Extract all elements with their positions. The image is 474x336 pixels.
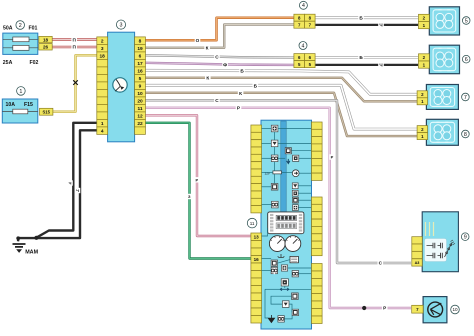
svg-text:16: 16 [137, 68, 143, 74]
svg-text:F01: F01 [29, 26, 38, 32]
svg-text:12: 12 [137, 113, 143, 119]
svg-text:18: 18 [100, 53, 106, 59]
svg-text:Ч: Ч [379, 23, 382, 28]
svg-text:11: 11 [250, 221, 255, 226]
svg-text:3: 3 [120, 23, 123, 29]
svg-text:18: 18 [43, 37, 49, 42]
svg-text:Ч: Ч [76, 188, 79, 193]
svg-text:2: 2 [101, 38, 104, 44]
svg-text:4: 4 [302, 3, 305, 9]
svg-text:17: 17 [137, 61, 143, 67]
svg-text:F02: F02 [30, 60, 39, 66]
svg-text:1: 1 [101, 121, 104, 127]
svg-text:Р: Р [195, 178, 198, 183]
svg-text:10: 10 [137, 91, 143, 97]
svg-text:5: 5 [139, 76, 142, 82]
svg-text:С: С [215, 98, 219, 103]
svg-text:20: 20 [137, 98, 143, 104]
svg-text:9: 9 [464, 235, 467, 241]
svg-text:Ч: Ч [379, 63, 382, 68]
svg-text:25A: 25A [3, 60, 13, 66]
svg-text:Р: Р [331, 155, 334, 160]
svg-text:19: 19 [137, 46, 143, 52]
svg-text:50A: 50A [3, 26, 13, 32]
svg-text:F15: F15 [24, 102, 33, 108]
svg-text:Р: Р [383, 306, 386, 311]
svg-text:22: 22 [137, 121, 143, 127]
svg-text:10: 10 [452, 307, 458, 312]
svg-text:8: 8 [139, 38, 142, 44]
svg-text:3: 3 [101, 46, 104, 52]
svg-text:6: 6 [139, 53, 142, 59]
svg-text:Ф: Ф [223, 63, 227, 68]
svg-text:1: 1 [19, 89, 22, 95]
svg-text:А3: А3 [415, 261, 420, 265]
svg-text:11: 11 [137, 106, 142, 112]
svg-text:7: 7 [464, 95, 467, 101]
svg-text:4: 4 [101, 128, 104, 134]
svg-text:К: К [239, 91, 242, 96]
svg-text:8: 8 [464, 132, 467, 138]
svg-text:13: 13 [254, 234, 260, 239]
svg-text:S15: S15 [42, 110, 50, 115]
svg-text:9: 9 [139, 83, 142, 89]
svg-text:О: О [196, 38, 200, 43]
svg-text:6: 6 [465, 57, 468, 63]
svg-text:5: 5 [465, 18, 468, 24]
svg-text:К: К [206, 75, 209, 80]
svg-text:2: 2 [19, 23, 22, 29]
svg-text:16: 16 [254, 257, 260, 262]
svg-text:МАМ: МАМ [25, 250, 38, 256]
svg-text:26: 26 [43, 45, 49, 50]
svg-text:4: 4 [302, 43, 305, 49]
svg-text:Р: Р [237, 106, 240, 111]
svg-text:Ч: Ч [69, 181, 72, 186]
svg-text:10A: 10A [6, 102, 16, 108]
svg-text:К: К [206, 46, 209, 51]
svg-text:С: С [215, 54, 219, 59]
